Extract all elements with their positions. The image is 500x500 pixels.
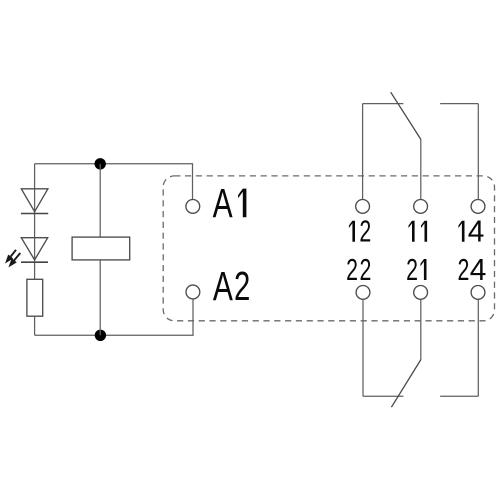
svg-text:4: 4 (470, 254, 487, 287)
wire terminal 24 vertical (477, 299, 479, 396)
contact armature bottom (391, 359, 421, 407)
terminal 22 (356, 286, 370, 300)
label 21 (406, 252, 426, 287)
wire terminal 21 vertical (420, 299, 422, 359)
LED V2 (21, 238, 48, 263)
label 22 (346, 252, 371, 287)
svg-text:A: A (213, 262, 233, 309)
wire A2 riser (192, 299, 194, 336)
label 12 (349, 214, 371, 249)
label 24 (458, 252, 487, 287)
diode V1 (21, 189, 48, 214)
wire left branch vertical (34, 164, 36, 280)
svg-text:2: 2 (406, 252, 418, 287)
svg-text:4: 4 (468, 215, 485, 248)
svg-text:2: 2 (458, 252, 470, 287)
wire NO contact bar bottom (440, 395, 478, 397)
contact armature top (391, 92, 421, 139)
label A1 (213, 179, 247, 226)
terminal 21 (414, 286, 428, 300)
svg-text:2: 2 (359, 214, 371, 249)
node top junction (95, 158, 106, 169)
label A2 (213, 262, 250, 309)
terminal A2 (186, 285, 200, 299)
wire NO contact bar top (440, 103, 478, 105)
wire NC contact bar bottom (363, 395, 403, 397)
terminal 12 (356, 200, 370, 214)
wire coil branch top (99, 164, 101, 237)
resistor R1 (27, 279, 43, 316)
wire coil branch bottom (99, 260, 101, 335)
wire terminal 12 vertical (362, 104, 364, 200)
label 14 (458, 215, 484, 248)
svg-text:2: 2 (360, 252, 372, 287)
terminal 24 (471, 286, 485, 300)
wire bottom rail of coil circuit (35, 334, 193, 336)
LED arrow 2 (9, 253, 20, 266)
relay outline dashed box (163, 176, 494, 321)
terminal A1 (186, 200, 200, 214)
svg-text:2: 2 (346, 252, 358, 287)
terminal 11 (414, 200, 428, 214)
svg-text:2: 2 (234, 263, 250, 309)
node bottom junction (95, 330, 106, 341)
coil K1 (72, 237, 130, 260)
wire top rail of coil circuit (35, 163, 193, 165)
wire NC contact bar top (363, 103, 404, 105)
wire terminal 14 vertical (477, 104, 479, 200)
terminal 14 (471, 200, 485, 214)
wire resistor to bottom rail (34, 316, 36, 335)
LED arrow 1 (6, 250, 16, 263)
label 11 (409, 221, 428, 242)
wire terminal 11 vertical (420, 140, 422, 200)
svg-text:A: A (213, 179, 233, 226)
wire terminal 22 vertical (362, 299, 364, 396)
wire A1 drop (192, 163, 194, 199)
